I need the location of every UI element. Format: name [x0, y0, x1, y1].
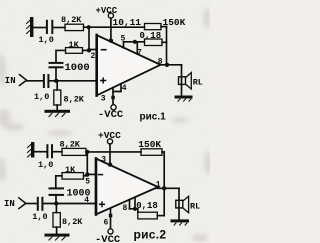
svg-text:8,2K: 8,2K — [62, 217, 83, 227]
resistor 1K (fig2) — [62, 173, 84, 180]
capacitor C2 1,0 (input) — [43, 74, 50, 88]
svg-text:IN: IN — [4, 199, 15, 209]
wire 8,2K to ground (fig2) — [56, 227, 58, 234]
node dot pin2 — [87, 48, 91, 52]
pin 8 stub (fig2) — [129, 200, 131, 209]
resistor 0,18 (fig2) — [138, 212, 158, 219]
wire riser to pin 2 — [88, 27, 90, 50]
svg-text:4: 4 — [84, 196, 89, 205]
svg-text:0,18: 0,18 — [140, 31, 162, 41]
capacitor C4 1,0 (fig2 input) — [37, 197, 44, 211]
resistor 0,18 — [145, 39, 163, 46]
node dot pin7 wire — [133, 40, 137, 44]
svg-text:-VCC: -VCC — [98, 109, 124, 121]
speaker RL — [179, 73, 192, 89]
wire 1000 to input node (fig2) — [55, 196, 57, 204]
wire VCC down to op-amp — [110, 18, 112, 41]
op-amp U2 — [96, 159, 158, 215]
resistor 8,2K (fig2 vertical) — [53, 213, 60, 228]
wire 1K right to node — [83, 49, 90, 51]
+VCC terminal circle — [108, 13, 113, 18]
op-amp U1 — [97, 35, 161, 96]
resistor 8,2K (vertical) — [54, 90, 61, 105]
node dot VCC pin — [109, 38, 113, 42]
capacitor C3 1,0 (fig2 top) — [46, 144, 53, 158]
svg-text:RL: RL — [190, 201, 200, 211]
node dot feedback — [87, 25, 91, 29]
wire input node down to 8,2K — [56, 81, 58, 90]
speaker RL (fig2) — [176, 196, 189, 212]
ground (under 8,2K) — [45, 110, 71, 117]
wire 1000 to input node — [55, 68, 57, 81]
wire output down to speaker — [181, 65, 183, 96]
input arrow — [20, 75, 27, 86]
node dot VCC pin (fig2) — [108, 162, 112, 166]
wire 0,18 to riser — [162, 41, 167, 43]
svg-text:1K: 1K — [65, 165, 76, 175]
svg-text:рис.1: рис.1 — [140, 111, 167, 122]
svg-text:6: 6 — [104, 218, 109, 227]
svg-text:+VCC: +VCC — [96, 6, 118, 16]
pin 5 stub — [123, 42, 125, 48]
wire pins to 0,18 — [124, 41, 145, 43]
wire in to C2 — [27, 80, 43, 82]
wire feedback riser (fig2) — [163, 152, 165, 216]
svg-text:10,11: 10,11 — [113, 17, 142, 28]
node dot input (fig2) — [54, 201, 58, 205]
node dot output (fig2) — [162, 186, 166, 190]
svg-text:4: 4 — [122, 84, 127, 93]
svg-text:8: 8 — [123, 204, 128, 213]
capacitor 1000 (fig2) — [49, 187, 65, 196]
ground (sideways, top-left) — [27, 17, 34, 37]
wire 1K left corner (fig2) — [56, 176, 62, 188]
node dot output — [165, 63, 169, 67]
wire input node to op-amp — [49, 80, 96, 82]
svg-text:3: 3 — [101, 156, 106, 165]
svg-text:1,0: 1,0 — [32, 212, 47, 222]
ground (sideways, fig2) — [28, 142, 35, 158]
svg-text:IN: IN — [5, 76, 16, 86]
capacitor C1 1,0 (top) — [46, 20, 53, 34]
-VCC terminal circle (fig1) — [111, 105, 116, 110]
svg-text:5: 5 — [85, 178, 90, 187]
wire pin 2 — [89, 49, 97, 51]
wire riser to pin 5 (fig2) — [86, 152, 88, 175]
input arrow (fig2) — [19, 198, 26, 209]
wire input node to op-amp (fig2) — [43, 203, 95, 205]
ground (under 8,2K fig2) — [45, 234, 70, 240]
wire 0,18 to riser (fig2) — [157, 215, 164, 217]
wire output — [161, 64, 182, 66]
ground (under speaker fig2) — [171, 219, 190, 225]
wire C1 to R 8,2K — [53, 27, 65, 29]
-VCC terminal circle (fig2) — [108, 229, 113, 234]
pin 7 stub — [136, 42, 138, 54]
wire ground to C3 — [34, 151, 46, 153]
wire 1K left corner — [56, 50, 66, 62]
wire pin3 stub to -VCC — [112, 88, 114, 105]
wire feedback long (fig2, to 150K) — [86, 151, 141, 153]
svg-text:-VCC: -VCC — [95, 234, 121, 243]
svg-text:1,0: 1,0 — [38, 160, 53, 170]
svg-text:1,0: 1,0 — [39, 35, 54, 45]
wire C3 to R 8,2K (fig2) — [53, 151, 62, 153]
resistor 150K — [145, 24, 162, 30]
ground (under speaker) — [175, 96, 193, 102]
node dot pin6 (fig2) — [109, 214, 113, 218]
wire output down to speaker (fig2) — [178, 188, 180, 219]
wire pins to 0,18 (fig2) — [130, 209, 138, 212]
wire 8,2K to ground — [56, 105, 58, 110]
node dot 0,18 wire (fig2) — [133, 207, 137, 211]
svg-text:1000: 1000 — [65, 62, 90, 74]
svg-text:3: 3 — [101, 94, 106, 103]
wire output (fig2) — [156, 187, 179, 189]
svg-text:рис.2: рис.2 — [134, 227, 167, 241]
resistor 8,2K (top horizontal) — [65, 24, 84, 30]
pin 6 stub (fig2 bottom) — [134, 198, 136, 209]
node dot feedback (fig2) — [85, 150, 89, 154]
scan smudges (decorative) — [0, 8, 212, 242]
resistor 8,2K (fig2 top horizontal) — [62, 148, 86, 155]
wire 150K to riser — [161, 26, 167, 28]
resistor 150K (fig2) — [141, 149, 162, 156]
capacitor 1000 (vertical) — [49, 62, 64, 68]
wire jog pin4 — [113, 84, 121, 92]
wire feedback riser — [166, 27, 168, 65]
wire VCC down to op-amp (fig2) — [109, 144, 111, 165]
wire 150K right to riser (fig2) — [162, 151, 164, 153]
wire input node down to 8,2K (fig2) — [55, 204, 57, 213]
svg-text:8,2K: 8,2K — [64, 95, 85, 105]
svg-text:1,0: 1,0 — [34, 92, 49, 102]
node dot pin3 — [111, 96, 115, 100]
node dot input — [54, 79, 58, 83]
svg-text:2: 2 — [91, 52, 96, 61]
svg-text:1K: 1K — [69, 40, 80, 50]
svg-text:8,2K: 8,2K — [60, 139, 81, 149]
wire feedback node long (to 150K) — [84, 26, 145, 28]
svg-text:8,2K: 8,2K — [61, 15, 82, 25]
wire in to C4 (fig2) — [26, 203, 37, 205]
+VCC terminal circle (fig2) — [107, 139, 112, 144]
wire ground to C1 — [33, 27, 46, 29]
resistor 1K — [66, 48, 83, 54]
wire pin 5 (fig2) — [87, 173, 96, 175]
wire 1K right to node (fig2) — [84, 175, 88, 177]
node dot pin5 (fig2) — [85, 172, 89, 176]
svg-text:7: 7 — [137, 49, 142, 58]
svg-text:0,18: 0,18 — [136, 201, 158, 211]
svg-text:RL: RL — [193, 78, 203, 88]
wire pin6 stub to -VCC (fig2) — [110, 208, 112, 229]
